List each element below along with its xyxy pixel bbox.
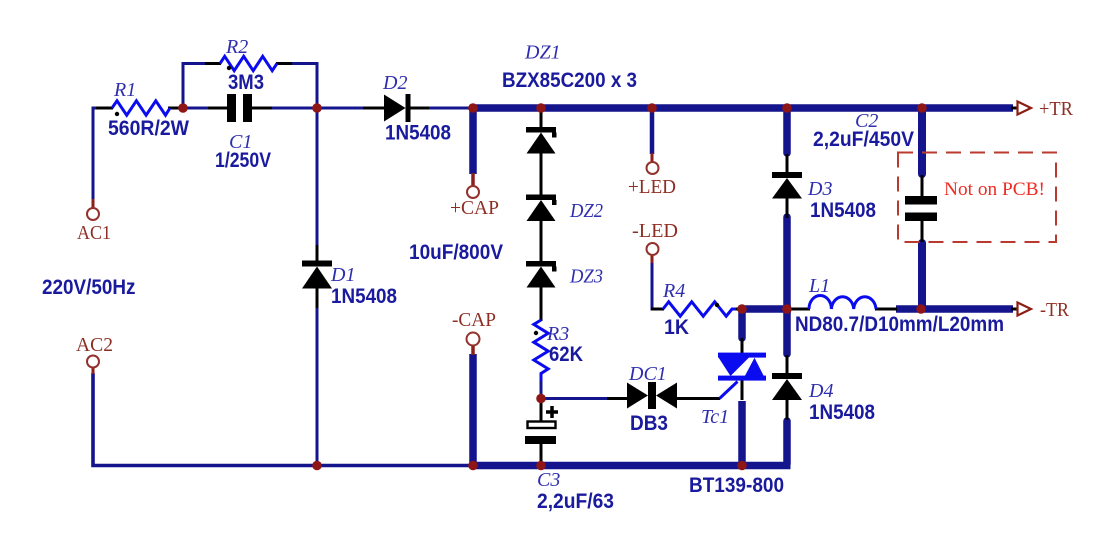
diode D1 xyxy=(302,245,397,308)
wire bottom bus thick xyxy=(471,462,791,470)
terminal -LED xyxy=(632,220,678,263)
dashed box Not on PCB xyxy=(898,153,1056,243)
capacitor C3 electrolytic xyxy=(525,398,614,513)
junction dot D3/D4 rail xyxy=(782,304,792,314)
terminal AC2 xyxy=(76,334,113,374)
diode D3 xyxy=(772,154,876,222)
wire D3 top stub xyxy=(783,108,791,153)
wire +TR connector xyxy=(1011,107,1017,110)
wire node B to D2 xyxy=(317,107,365,110)
svg-text:Tc1: Tc1 xyxy=(701,406,729,428)
resistor R2 xyxy=(205,36,292,94)
svg-text:D4: D4 xyxy=(808,380,833,402)
svg-text:DZ2: DZ2 xyxy=(569,200,603,222)
svg-text:10uF/800V: 10uF/800V xyxy=(409,241,503,264)
svg-text:-CAP: -CAP xyxy=(452,309,496,331)
svg-text:1N5408: 1N5408 xyxy=(809,401,875,424)
junction dot top bus D3 xyxy=(782,103,792,113)
svg-text:560R/2W: 560R/2W xyxy=(108,117,189,140)
svg-text:2,2uF/63: 2,2uF/63 xyxy=(537,490,614,513)
zener diode DZ2 xyxy=(526,195,603,263)
svg-text:220V/50Hz: 220V/50Hz xyxy=(42,276,136,299)
wire -TR rail left segment xyxy=(742,305,791,313)
junction dot bottom bus -CAP xyxy=(468,461,478,471)
diac DC1 xyxy=(607,363,720,435)
svg-text:1N5408: 1N5408 xyxy=(810,199,876,222)
wire C1 right to node B xyxy=(270,107,317,110)
wire R2 loop right xyxy=(290,64,317,109)
junction dot top bus +LED xyxy=(647,103,657,113)
junction dot top bus DZ1 xyxy=(536,103,546,113)
svg-text:AC2: AC2 xyxy=(76,334,113,356)
svg-text:D1: D1 xyxy=(330,264,355,286)
wire R2 loop left xyxy=(183,64,207,109)
node A junction dot R1/R2 xyxy=(178,103,188,113)
wire +CAP stub xyxy=(469,108,477,174)
svg-text:DB3: DB3 xyxy=(630,412,668,435)
svg-text:R1: R1 xyxy=(113,79,136,101)
junction dot bottom bus D1 xyxy=(312,461,322,471)
diode D2 xyxy=(363,72,451,145)
wire +LED drop xyxy=(650,112,655,154)
wire R1 right to node A xyxy=(168,107,183,110)
svg-text:62K: 62K xyxy=(549,343,583,366)
terminal -CAP xyxy=(452,309,496,355)
wire AC2 riser and bottom rail left xyxy=(93,373,474,466)
resistor R4 xyxy=(651,280,743,339)
wire triac MT2 stub xyxy=(738,309,746,338)
capacitor C1 xyxy=(208,94,272,172)
svg-text:1N5408: 1N5408 xyxy=(385,122,451,145)
svg-text:DZ1: DZ1 xyxy=(524,42,561,64)
wire R3 bottom connector xyxy=(540,380,543,399)
junction dot top bus +CAP xyxy=(468,103,478,113)
wire D1 vertical bottom xyxy=(316,307,319,466)
inductor L1 xyxy=(790,275,1004,336)
wire top bus +TR xyxy=(470,104,1013,112)
svg-text:D2: D2 xyxy=(382,72,407,94)
zener diode DZ1 xyxy=(502,42,637,197)
resistor R1 xyxy=(96,79,189,140)
capacitor C2 (not on PCB) xyxy=(813,110,937,242)
wire D2 to top bus xyxy=(428,107,471,110)
wire AC1 riser to R1 xyxy=(93,108,98,201)
svg-text:R4: R4 xyxy=(662,280,685,302)
triac Tc1 xyxy=(689,338,784,497)
svg-text:D3: D3 xyxy=(807,178,832,200)
junction dot R4/triac xyxy=(737,304,747,314)
svg-text:R3: R3 xyxy=(546,323,569,345)
svg-text:+TR: +TR xyxy=(1039,98,1074,120)
svg-text:BT139-800: BT139-800 xyxy=(689,474,784,497)
wire triac MT1 to bottom bus xyxy=(738,401,746,466)
output arrow -TR xyxy=(1018,299,1070,321)
svg-text:L1: L1 xyxy=(808,275,830,297)
junction dot bottom bus triac xyxy=(737,461,747,471)
junction dot C2 rail xyxy=(916,304,926,314)
svg-text:DZ3: DZ3 xyxy=(569,266,603,288)
svg-text:BZX85C200 x 3: BZX85C200 x 3 xyxy=(502,69,637,92)
resistor R3 xyxy=(534,320,583,381)
wire D3 bottom stub xyxy=(783,217,791,309)
svg-text:AC1: AC1 xyxy=(77,222,111,244)
svg-text:2,2uF/450V: 2,2uF/450V xyxy=(813,128,914,151)
svg-text:3M3: 3M3 xyxy=(228,71,264,94)
svg-text:-LED: -LED xyxy=(632,220,678,242)
svg-text:C3: C3 xyxy=(537,469,560,491)
svg-text:Not on PCB!: Not on PCB! xyxy=(944,179,1045,200)
wire R3 to diac xyxy=(541,397,609,400)
junction dot top bus C2 xyxy=(917,103,927,113)
svg-text:ND80.7/D10mm/L20mm: ND80.7/D10mm/L20mm xyxy=(795,313,1004,336)
wire -LED drop to R4 xyxy=(652,262,653,309)
terminal +CAP xyxy=(450,173,499,219)
wire -TR connector xyxy=(1011,308,1017,311)
wire D4 bottom to bus corner xyxy=(783,421,791,464)
wire node A to C1 xyxy=(183,107,210,110)
terminal AC1 xyxy=(77,199,111,244)
wire C2 bottom stub xyxy=(918,243,926,309)
junction dot R3/C3/diac xyxy=(536,394,546,404)
node B junction dot C1/R2/D1 xyxy=(312,103,322,113)
junction dot bottom bus C3 xyxy=(536,461,546,471)
wire -CAP stub xyxy=(469,354,477,464)
svg-text:DC1: DC1 xyxy=(628,363,667,385)
svg-text:1K: 1K xyxy=(664,316,689,339)
wire -TR rail right segment xyxy=(896,305,1013,313)
svg-text:1N5408: 1N5408 xyxy=(331,285,397,308)
wire D4 top stub xyxy=(783,309,791,354)
svg-text:+CAP: +CAP xyxy=(450,197,499,219)
svg-text:+LED: +LED xyxy=(628,176,676,198)
output arrow +TR xyxy=(1018,98,1074,120)
diode D4 xyxy=(772,355,875,424)
svg-text:1/250V: 1/250V xyxy=(215,149,271,172)
svg-text:R2: R2 xyxy=(225,36,248,58)
terminal +LED xyxy=(628,153,676,198)
wire C2 top stub xyxy=(918,108,926,174)
svg-text:-TR: -TR xyxy=(1040,299,1070,321)
wire D1 vertical top xyxy=(316,108,319,247)
zener diode DZ3 xyxy=(526,261,603,321)
